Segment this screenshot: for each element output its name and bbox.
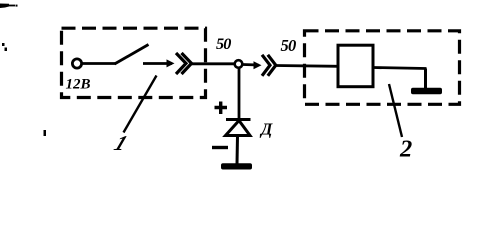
scan speck left edge a	[2, 43, 5, 46]
connector chevrons 1	[176, 53, 186, 74]
ground bar (box2)	[411, 88, 442, 94]
leader line 1	[124, 76, 157, 133]
scan speck tick	[44, 130, 47, 136]
ground bar (diode)	[221, 163, 252, 169]
relay square	[338, 45, 373, 86]
plus sign	[215, 102, 228, 115]
wire connector 2 into box 2	[276, 64, 340, 68]
vertical wire node to diode	[238, 68, 241, 120]
wire from terminal to switch	[82, 62, 116, 65]
wire diode to ground	[236, 136, 240, 164]
scan artifact top-left wedge	[0, 4, 18, 9]
diode triangle	[226, 121, 251, 136]
dashed box 2 (relay unit)	[305, 31, 460, 105]
connector arrowhead 1	[167, 59, 175, 67]
node circle	[235, 60, 243, 68]
diode cathode bar	[226, 118, 251, 121]
wire corner down	[424, 69, 427, 90]
svg-text:50: 50	[216, 35, 231, 53]
leader line 2	[389, 84, 402, 137]
dashed box 1 (switch unit)	[62, 28, 206, 97]
connector chevrons 2	[262, 55, 270, 76]
minus sign	[212, 146, 228, 149]
connector arrowhead 2	[254, 61, 262, 69]
terminal circle 12V	[72, 59, 81, 68]
wire square to corner	[373, 68, 427, 69]
scan speck left edge b	[5, 48, 8, 52]
svg-text:2: 2	[399, 136, 412, 163]
svg-text:50: 50	[281, 36, 296, 55]
svg-text:12В: 12В	[66, 77, 91, 93]
svg-text:Д: Д	[259, 120, 273, 139]
wire chevron1 to node	[191, 62, 236, 65]
wire node to connector 2	[243, 63, 259, 66]
wire from switch to connector	[143, 62, 172, 65]
switch blade	[115, 45, 149, 65]
